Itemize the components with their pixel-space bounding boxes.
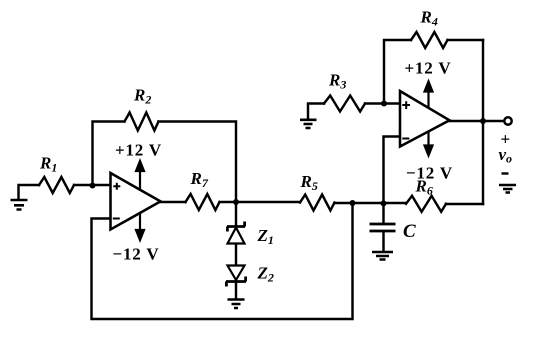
svg-text:+12 V: +12 V — [115, 141, 162, 160]
svg-text:−12 V: −12 V — [406, 164, 453, 183]
svg-text:−12 V: −12 V — [113, 245, 160, 264]
svg-text:C: C — [403, 221, 416, 242]
svg-text:+: + — [501, 130, 512, 149]
svg-text:+12 V: +12 V — [405, 59, 452, 78]
